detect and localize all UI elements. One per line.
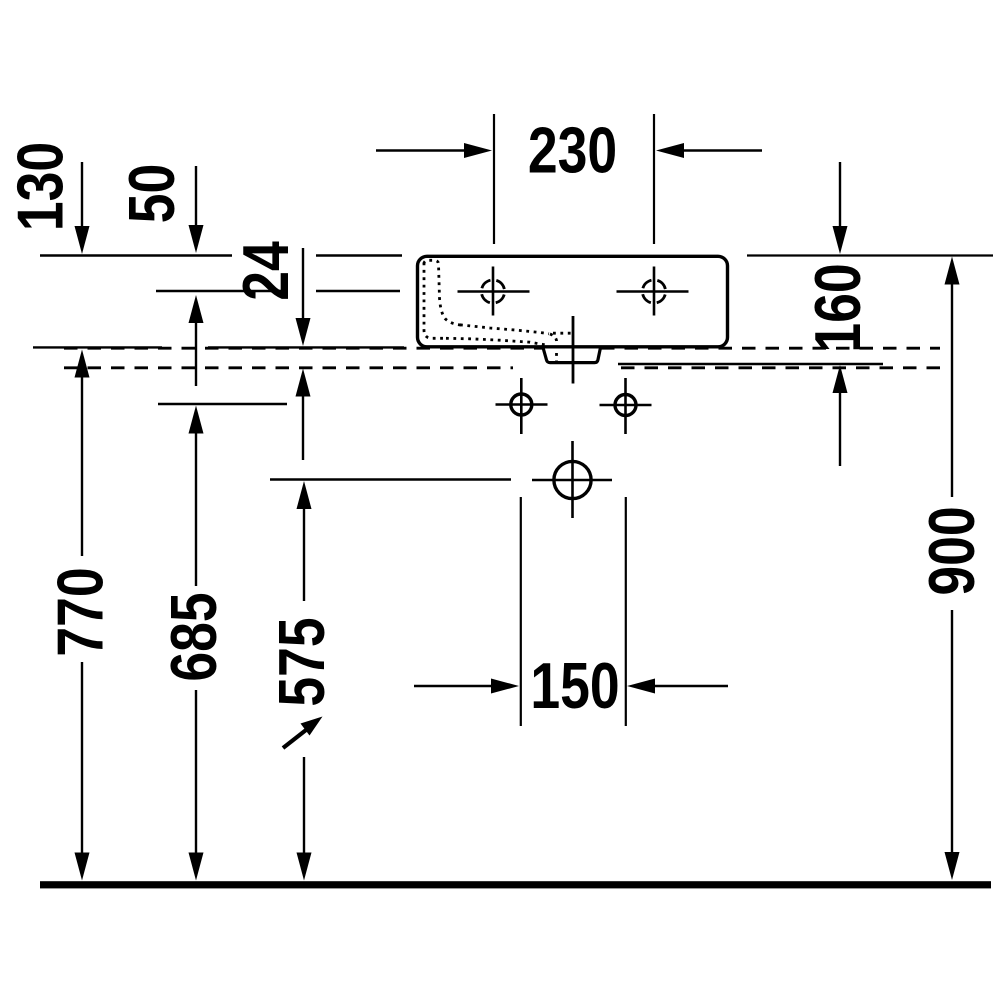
svg-text:50: 50	[115, 164, 188, 224]
dimension 230 extension line right	[653, 114, 655, 244]
wall solid line mid segment	[208, 346, 404, 348]
faucet hole left circle	[481, 280, 504, 303]
dimension 150 extension line left	[520, 497, 522, 726]
faucet hole right cross	[617, 267, 689, 316]
basin hidden bottom upper line	[460, 325, 549, 334]
drain outlet	[543, 348, 601, 363]
fixing hole right circle	[615, 395, 636, 416]
rim level line left segment	[40, 254, 232, 257]
dimension 900 line	[945, 257, 960, 881]
dimension 150 arrow right	[627, 679, 728, 694]
faucet level line left segment	[156, 290, 284, 292]
dimension 24 arrow up with tail	[296, 369, 311, 461]
dimension 770 line	[75, 350, 90, 881]
dimension 575 tick line	[270, 478, 511, 480]
fixing hole left cross	[496, 378, 548, 434]
waste outlet circle	[554, 461, 591, 498]
faucet hole left cross	[458, 267, 530, 316]
dimension 230 arrow right	[656, 143, 762, 158]
rim level line middle segment	[316, 254, 402, 257]
dimension 685 tick line	[158, 403, 287, 405]
svg-text:160: 160	[801, 263, 874, 352]
svg-text:685: 685	[157, 592, 230, 681]
dimension 230 extension line left	[493, 114, 495, 244]
wall solid line left segment	[33, 346, 162, 348]
floor line	[40, 881, 991, 888]
svg-text:130: 130	[4, 142, 77, 231]
dimension 230 arrow left	[376, 143, 492, 158]
svg-text:24: 24	[229, 241, 302, 301]
drain hidden vertical line	[550, 334, 557, 362]
faucet hole right circle	[642, 280, 665, 303]
drain center line	[572, 316, 575, 384]
faucet level line right segment	[316, 290, 400, 292]
dimension 50 arrow down	[189, 166, 204, 253]
basin hidden slot left wall	[424, 263, 446, 339]
dimension 150 extension line right	[625, 497, 627, 726]
wall dashed line lower	[64, 366, 513, 369]
svg-text:575: 575	[265, 617, 338, 706]
basin outline	[418, 256, 728, 347]
waste outlet cross	[532, 441, 612, 518]
basin hidden bottom lower line	[446, 338, 545, 345]
level line 160 bottom	[618, 363, 883, 365]
dimension 50 arrow up with tail	[189, 295, 204, 386]
svg-text:770: 770	[44, 567, 117, 656]
svg-text:150: 150	[530, 649, 619, 722]
drain hidden horizontal spur	[553, 332, 573, 335]
leader arrow northeast	[283, 717, 323, 749]
dimension 685 line	[189, 406, 204, 881]
fixing hole right cross	[600, 378, 652, 434]
wall dashed line upper	[64, 347, 543, 350]
dimension 150 arrow left	[414, 679, 519, 694]
dimension 575 line	[297, 481, 312, 881]
dimension 24 arrow down	[296, 248, 311, 346]
svg-text:230: 230	[528, 114, 617, 187]
dimension 160 arrow up with tail	[833, 365, 848, 466]
fixing hole left circle	[511, 394, 532, 415]
rim level line right segment	[747, 254, 993, 256]
dimension 160 arrow down	[833, 162, 848, 254]
dimension 130 arrow down	[75, 162, 90, 254]
svg-text:900: 900	[915, 506, 988, 595]
basin hidden slot inner line	[424, 260, 462, 325]
